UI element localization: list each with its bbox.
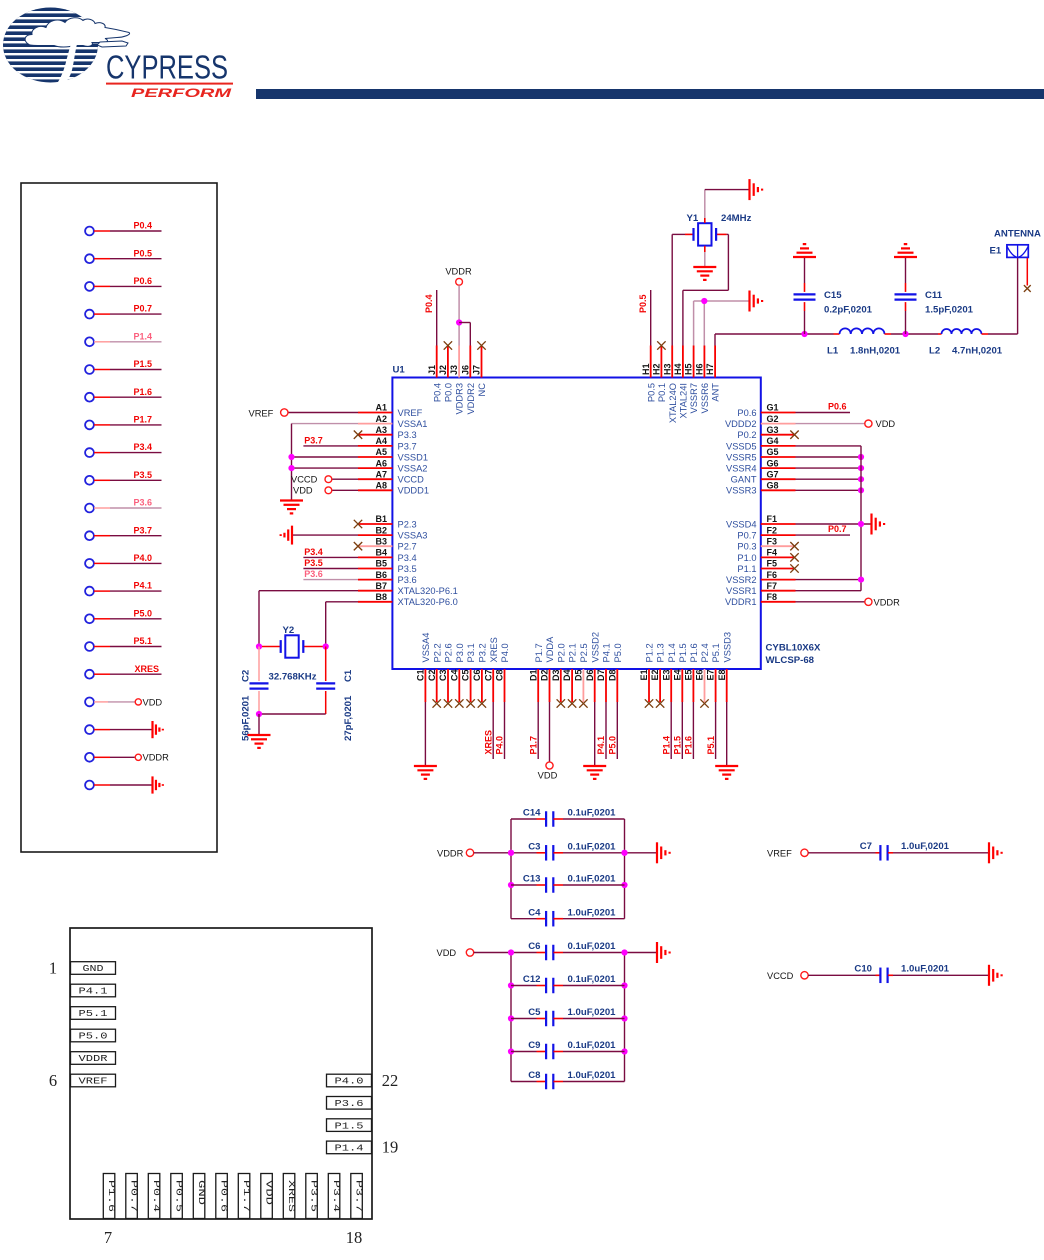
svg-text:P1.6: P1.6: [689, 643, 699, 662]
pin B1 P2.3: [358, 514, 417, 529]
svg-text:VSSR6: VSSR6: [700, 383, 710, 414]
no-connect D4: [568, 699, 576, 707]
svg-text:G8: G8: [767, 481, 779, 491]
pin H4 XTAL24I: [673, 346, 689, 419]
svg-text:P1.1: P1.1: [737, 564, 756, 574]
wire VSSD2 D6 to ground: [594, 702, 596, 765]
connector pin P4.1: [85, 581, 161, 596]
svg-text:C6: C6: [472, 670, 482, 682]
svg-text:P1.3: P1.3: [656, 643, 666, 662]
wire VSSA2 A6: [292, 467, 359, 469]
svg-text:VDDR: VDDR: [437, 848, 464, 858]
svg-text:22: 22: [382, 1071, 399, 1090]
svg-text:0.1uF,0201: 0.1uF,0201: [568, 808, 617, 819]
svg-text:C5: C5: [528, 1007, 541, 1018]
net P5.1 at E7: [706, 702, 716, 759]
pin A8 VDDD1: [358, 481, 429, 496]
svg-text:A3: A3: [375, 425, 387, 435]
svg-text:0.1uF,0201: 0.1uF,0201: [568, 941, 617, 952]
net P1.7 at D1: [528, 702, 538, 759]
module pad P3.7 (bottom): [351, 1174, 364, 1219]
wire VSSR2 F6 to bus: [796, 577, 865, 583]
svg-text:VSSA3: VSSA3: [398, 531, 428, 541]
svg-text:CYPRESS: CYPRESS: [106, 49, 228, 86]
svg-text:P0.4: P0.4: [432, 383, 442, 402]
net P5.0 at D8: [608, 702, 618, 759]
pin C8 P4.0: [495, 643, 511, 702]
svg-text:A4: A4: [375, 436, 387, 446]
svg-text:Y2: Y2: [283, 625, 295, 636]
svg-text:B7: B7: [375, 581, 387, 591]
connector pin P0.7: [85, 304, 161, 319]
svg-text:P5.0: P5.0: [133, 608, 152, 618]
svg-text:P3.4: P3.4: [331, 1180, 341, 1212]
svg-text:VSSA2: VSSA2: [398, 464, 428, 474]
pin D2 VDDA: [540, 636, 556, 702]
module pad P0.6 (bottom): [216, 1174, 229, 1219]
wire XTAL24I H4 to Y1: [683, 234, 729, 345]
svg-text:ANTENNA: ANTENNA: [994, 229, 1041, 240]
pin A7 VCCD: [358, 469, 424, 484]
node VDD at A8: [293, 486, 358, 496]
pin H7 ANT: [705, 346, 721, 402]
svg-text:B3: B3: [375, 536, 387, 546]
svg-text:VSSR1: VSSR1: [726, 586, 757, 596]
pad number 18: [346, 1228, 363, 1247]
svg-text:P3.5: P3.5: [308, 1180, 318, 1212]
svg-text:A2: A2: [375, 414, 387, 424]
pin G3 P0.2: [737, 425, 795, 440]
inductor L2 4.7nH: [929, 329, 1003, 357]
svg-text:P0.7: P0.7: [133, 304, 152, 314]
net P0.7 at F2: [796, 524, 851, 535]
svg-text:19: 19: [382, 1138, 399, 1157]
svg-text:P1.6: P1.6: [684, 736, 694, 755]
inductor L1 1.8nH: [827, 328, 901, 356]
svg-text:B1: B1: [375, 514, 387, 524]
pin C2 P2.2: [427, 643, 443, 702]
ground: [657, 842, 670, 863]
capacitor C5 1.0uF,0201: [511, 1007, 625, 1026]
pin J6 VDDR2: [460, 346, 476, 415]
svg-text:18: 18: [346, 1228, 363, 1247]
module pad P1.6 (bottom): [103, 1174, 116, 1219]
IC U1 body: [392, 365, 760, 670]
svg-text:4.7nH,0201: 4.7nH,0201: [952, 346, 1003, 357]
svg-text:P3.4: P3.4: [304, 547, 323, 557]
module pad P5.1: [71, 1007, 116, 1020]
svg-text:P0.4: P0.4: [424, 294, 434, 313]
wire G7 to ground bus: [796, 476, 865, 482]
capacitor C13 0.1uF,0201: [511, 874, 625, 893]
svg-text:A8: A8: [375, 481, 387, 491]
pin C1 VSSA4: [416, 633, 432, 702]
svg-text:E4: E4: [672, 670, 682, 681]
VDDR bank right bus: [621, 819, 627, 919]
module pad VREF: [71, 1074, 116, 1087]
svg-text:P2.6: P2.6: [444, 643, 454, 662]
svg-text:C11: C11: [925, 290, 943, 301]
svg-text:F5: F5: [767, 559, 778, 569]
svg-text:VSSD5: VSSD5: [726, 441, 757, 451]
connector pin P3.5: [85, 470, 161, 485]
svg-text:P3.3: P3.3: [398, 430, 417, 440]
no-connect C6: [478, 699, 486, 707]
svg-text:0.1uF,0201: 0.1uF,0201: [568, 974, 617, 985]
ground bus right: [860, 446, 862, 591]
pin D5 P2.5: [574, 643, 590, 702]
pin D7 P4.1: [596, 643, 612, 702]
svg-text:1.0uF,0201: 1.0uF,0201: [568, 907, 617, 918]
svg-text:A1: A1: [375, 403, 387, 413]
svg-text:VSSD1: VSSD1: [398, 452, 429, 462]
svg-text:A7: A7: [375, 469, 387, 479]
antenna E1: [990, 229, 1041, 258]
svg-text:ANT: ANT: [711, 383, 721, 402]
connector pin P5.0: [85, 608, 161, 623]
svg-text:P3.4: P3.4: [398, 553, 417, 563]
wire G6 to ground bus: [796, 465, 865, 471]
net P0.4 at J1: [424, 290, 437, 346]
pin F7 VSSR1: [726, 581, 796, 596]
svg-text:H1: H1: [641, 363, 651, 375]
module pad XRES (bottom): [283, 1174, 296, 1219]
svg-text:P1.7: P1.7: [528, 736, 538, 755]
svg-text:GND: GND: [196, 1180, 206, 1205]
capacitor C2 56pF: [241, 647, 269, 742]
svg-text:B5: B5: [375, 559, 387, 569]
pin G1 P0.6: [737, 403, 795, 418]
pin E5 P1.6: [684, 643, 700, 702]
pin A4 P3.7: [358, 436, 417, 451]
wire P3.5 B5: [303, 558, 358, 569]
pin C4 P3.0: [449, 643, 465, 702]
svg-text:C4: C4: [528, 907, 541, 918]
IC U1 part number CYBL10X6X WLCSP-68: [766, 643, 822, 667]
pin F1 VSSD4: [726, 514, 796, 529]
no-connect C3: [444, 699, 452, 707]
svg-text:VSSA1: VSSA1: [398, 419, 428, 429]
capacitor C11 1.5pF: [895, 257, 974, 334]
pin B2 VSSA3: [358, 525, 427, 540]
svg-text:P1.7: P1.7: [133, 415, 152, 425]
ground above C11: [894, 244, 917, 257]
svg-text:P2.0: P2.0: [556, 643, 566, 662]
no-connect stub on antenna: [1024, 257, 1031, 292]
svg-text:P0.3: P0.3: [737, 542, 756, 552]
svg-text:F7: F7: [767, 581, 778, 591]
no-connect D5: [579, 699, 587, 707]
svg-text:P1.4: P1.4: [335, 1144, 364, 1154]
net P1.5 at E4: [673, 702, 683, 759]
svg-text:VDDA: VDDA: [545, 636, 555, 663]
net P1.6 at E5: [684, 702, 694, 759]
svg-text:C8: C8: [528, 1070, 541, 1081]
svg-text:VDDD2: VDDD2: [725, 419, 757, 429]
svg-text:P3.5: P3.5: [398, 564, 417, 574]
ground (case): [750, 179, 763, 200]
node VDD at D2 (VDDA): [538, 702, 558, 781]
power VDDR: [437, 848, 514, 858]
no-connect C4: [455, 699, 463, 707]
svg-text:D6: D6: [585, 670, 595, 682]
svg-text:P2.5: P2.5: [579, 643, 589, 662]
module footprint outline: [70, 928, 372, 1219]
svg-text:H4: H4: [673, 363, 683, 375]
svg-text:0.1uF,0201: 0.1uF,0201: [568, 874, 617, 885]
svg-text:XTAL320-P6.1: XTAL320-P6.1: [398, 586, 458, 596]
node VCCD at A7: [291, 474, 358, 484]
svg-text:P0.6: P0.6: [133, 276, 152, 286]
svg-text:0.1uF,0201: 0.1uF,0201: [568, 841, 617, 852]
svg-text:C3: C3: [438, 670, 448, 682]
pin D4 P2.1: [562, 643, 578, 702]
svg-text:P4.0: P4.0: [133, 553, 152, 563]
svg-text:B2: B2: [375, 525, 387, 535]
svg-text:VDD: VDD: [538, 771, 558, 781]
ground: [248, 735, 271, 748]
wire C1 bottom to C2 bottom: [256, 711, 326, 717]
connector pin power VDD: [85, 697, 162, 707]
pin H6 VSSR6: [695, 346, 711, 414]
svg-text:J3: J3: [449, 365, 459, 375]
svg-text:C15: C15: [824, 290, 842, 301]
wire G8 to ground bus: [796, 487, 865, 493]
svg-text:P0.7: P0.7: [828, 524, 847, 534]
svg-text:VCCD: VCCD: [398, 475, 425, 485]
capacitor C10 1.0uF on VCCD: [767, 963, 988, 983]
net P0.6 at G1: [796, 402, 851, 413]
wire VSSD1 A5: [292, 456, 359, 458]
pin G2 VDDD2: [725, 414, 796, 429]
svg-text:GND: GND: [83, 964, 104, 974]
svg-text:C14: C14: [523, 808, 541, 819]
svg-text:P5.0: P5.0: [608, 736, 618, 755]
svg-text:P4.1: P4.1: [133, 581, 152, 591]
pin E3 P1.4: [661, 643, 677, 702]
pin F2 P0.7: [737, 525, 795, 540]
svg-text:6: 6: [49, 1071, 57, 1090]
svg-text:VSSR4: VSSR4: [726, 464, 757, 474]
svg-text:VSSD3: VSSD3: [722, 632, 732, 663]
module pad P1.7 (bottom): [238, 1174, 251, 1219]
svg-text:P3.4: P3.4: [133, 442, 152, 452]
svg-text:H3: H3: [662, 363, 672, 375]
svg-text:1.0uF,0201: 1.0uF,0201: [901, 963, 950, 974]
pin H5 VSSR7: [684, 346, 700, 414]
pin G5 VSSR5: [726, 447, 796, 462]
svg-text:VCCD: VCCD: [291, 474, 318, 484]
svg-text:XRES: XRES: [134, 664, 159, 674]
svg-text:P5.0: P5.0: [613, 643, 623, 662]
svg-text:A6: A6: [375, 458, 387, 468]
svg-text:VREF: VREF: [79, 1077, 108, 1087]
svg-text:P1.4: P1.4: [133, 331, 152, 341]
pin H1 P0.5: [641, 346, 657, 403]
module pad P3.5 (bottom): [306, 1174, 319, 1219]
svg-text:E2: E2: [650, 670, 660, 681]
capacitor C4 1.0uF,0201: [511, 907, 625, 926]
no-connect E6: [700, 699, 708, 707]
pin C7 XRES: [483, 637, 499, 702]
connector pin P1.7: [85, 415, 161, 430]
svg-text:P3.5: P3.5: [304, 558, 323, 568]
svg-text:J6: J6: [460, 365, 470, 375]
svg-text:E5: E5: [684, 670, 694, 681]
svg-text:P0.4: P0.4: [151, 1180, 161, 1212]
no-connect E2: [656, 699, 664, 707]
svg-text:WLCSP-68: WLCSP-68: [766, 655, 815, 666]
module pad P3.4 (bottom): [328, 1174, 341, 1219]
module pad P3.6: [327, 1097, 372, 1110]
svg-text:P3.2: P3.2: [478, 643, 488, 662]
pad number 1: [49, 959, 57, 978]
VDD bank left bus: [508, 953, 514, 1082]
svg-text:H2: H2: [652, 363, 662, 375]
svg-text:C10: C10: [854, 963, 872, 974]
pin A1 VREF: [358, 403, 423, 418]
pin J1 P0.4: [427, 346, 443, 403]
svg-text:P3.6: P3.6: [398, 575, 417, 585]
no-connect J7: [477, 341, 485, 349]
no-connect F4: [790, 553, 798, 561]
wire VSSD4 F1 to ground: [796, 521, 872, 527]
svg-text:H7: H7: [705, 363, 715, 375]
svg-text:F8: F8: [767, 592, 778, 602]
svg-text:E3: E3: [661, 670, 671, 681]
no-connect G3: [790, 431, 798, 439]
svg-text:0.1uF,0201: 0.1uF,0201: [568, 1040, 617, 1051]
connector pin P0.5: [85, 248, 161, 263]
svg-text:P0.6: P0.6: [828, 402, 847, 412]
VDD bank right bus: [621, 953, 627, 1082]
pin J7 NC: [472, 346, 488, 397]
svg-text:VDD: VDD: [293, 486, 313, 496]
module pad P4.1: [71, 984, 116, 997]
svg-text:P0.7: P0.7: [737, 531, 756, 541]
no-connect A3: [354, 431, 362, 439]
svg-text:24MHz: 24MHz: [721, 213, 752, 224]
connector pin P3.7: [85, 525, 161, 540]
pin E8 VSSD3: [717, 632, 733, 702]
pin F8 VDDR1: [725, 592, 796, 607]
svg-text:U1: U1: [393, 365, 406, 376]
node VDDR at F8: [796, 597, 901, 607]
wire to ground: [258, 714, 260, 734]
svg-text:P3.0: P3.0: [455, 643, 465, 662]
svg-text:G7: G7: [767, 469, 779, 479]
svg-text:VDDR: VDDR: [445, 267, 472, 277]
svg-text:E1: E1: [639, 670, 649, 681]
svg-text:G3: G3: [767, 425, 779, 435]
svg-text:VDD: VDD: [437, 948, 457, 958]
svg-text:P5.1: P5.1: [706, 736, 716, 755]
pin C6 P3.2: [472, 643, 488, 702]
net P4.0 at C8: [495, 702, 505, 759]
svg-text:F4: F4: [767, 548, 778, 558]
svg-text:VDD: VDD: [143, 697, 163, 707]
svg-text:VDDR3: VDDR3: [455, 383, 465, 415]
svg-text:C8: C8: [495, 670, 505, 682]
svg-text:L2: L2: [929, 346, 940, 357]
svg-text:G1: G1: [767, 403, 779, 413]
svg-text:P5.1: P5.1: [133, 636, 152, 646]
module pad GND: [71, 962, 116, 975]
no-connect B3: [354, 542, 362, 550]
svg-text:VCCD: VCCD: [767, 971, 794, 981]
svg-text:P3.5: P3.5: [133, 470, 152, 480]
ground: [715, 766, 738, 779]
svg-text:A5: A5: [375, 447, 387, 457]
wire P3.4 B4: [303, 547, 358, 558]
wire XTAL320-P6.0 B8: [326, 602, 358, 647]
svg-text:C13: C13: [523, 874, 541, 885]
wire VSSA4 C1 to ground: [424, 702, 426, 765]
svg-text:1.0uF,0201: 1.0uF,0201: [901, 841, 950, 852]
connector pin P5.1: [85, 636, 161, 651]
ground: [750, 291, 763, 312]
connector pin XRES: [85, 664, 161, 679]
svg-text:32.768KHz: 32.768KHz: [269, 672, 317, 683]
pin B3 P2.7: [358, 536, 417, 551]
capacitor C14 0.1uF,0201: [511, 808, 625, 827]
wire VSSD5 G4 to bus: [796, 445, 862, 447]
svg-text:P0.1: P0.1: [657, 383, 667, 402]
wire Y1 case to ground: [705, 190, 749, 223]
wire VSSA3 B2 to ground: [281, 526, 358, 545]
pin C5 P3.1: [461, 643, 477, 702]
module pad P5.0: [71, 1029, 116, 1042]
svg-text:VDDR: VDDR: [143, 753, 170, 763]
wire VSSR1 F7 to bus: [796, 590, 862, 592]
svg-text:C7: C7: [860, 841, 872, 852]
connector pin P1.4: [85, 331, 161, 346]
svg-text:C3: C3: [528, 841, 540, 852]
pin H3 XTAL24O: [662, 346, 678, 424]
pad number 22: [382, 1071, 399, 1090]
connector pin P3.6: [85, 498, 161, 513]
svg-text:G6: G6: [767, 458, 779, 468]
pin B8 XTAL320-P6.0: [358, 592, 458, 607]
module pad P0.7 (bottom): [126, 1174, 139, 1219]
pin F5 P1.1: [737, 559, 795, 574]
pin H2 P0.1: [652, 346, 668, 403]
svg-text:1: 1: [49, 959, 57, 978]
svg-text:P1.5: P1.5: [335, 1121, 364, 1131]
pin F6 VSSR2: [726, 570, 796, 585]
pin G4 VSSD5: [726, 436, 796, 451]
svg-text:XRES: XRES: [489, 637, 499, 662]
capacitor C9 0.1uF,0201: [511, 1040, 625, 1059]
wire Y1 bottom to ground: [704, 246, 706, 266]
svg-text:E7: E7: [706, 670, 716, 681]
pin E1 P1.2: [639, 643, 655, 702]
svg-text:CYBL10X6X: CYBL10X6X: [766, 643, 822, 654]
power VDDR above U1: [445, 267, 472, 346]
svg-text:VSSD2: VSSD2: [590, 632, 600, 663]
svg-text:VREF: VREF: [398, 408, 423, 418]
wire to ground: [621, 850, 656, 856]
svg-text:L1: L1: [827, 346, 839, 357]
svg-text:VSSR3: VSSR3: [726, 486, 757, 496]
capacitor C6 0.1uF,0201: [511, 941, 625, 960]
svg-text:VSSR5: VSSR5: [726, 452, 757, 462]
svg-text:G4: G4: [767, 436, 779, 446]
svg-text:PERFORM: PERFORM: [131, 88, 232, 100]
svg-text:P3.7: P3.7: [398, 441, 417, 451]
left connector box: [21, 183, 217, 852]
svg-text:B6: B6: [375, 570, 387, 580]
